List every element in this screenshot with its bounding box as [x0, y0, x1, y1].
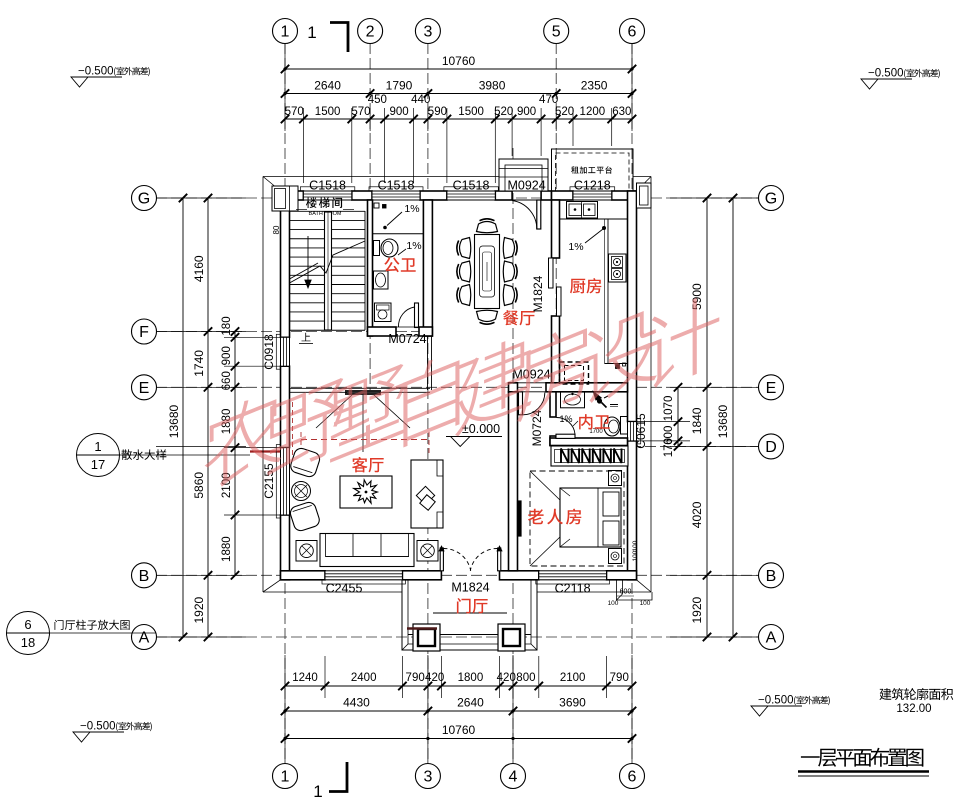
svg-text:G: G [765, 191, 777, 208]
window C0918 [281, 337, 290, 366]
axis bubble G right [759, 186, 784, 211]
wall bottom: pier at axis6 corner [607, 571, 637, 580]
axis grid line E (horizontal) [156, 386, 759, 388]
left extension lines [224, 336, 282, 338]
axis bubble E right [759, 375, 784, 400]
svg-text:1: 1 [313, 782, 322, 801]
svg-text:1500: 1500 [315, 106, 341, 118]
svg-text:1%: 1% [404, 203, 419, 215]
svg-text:6: 6 [628, 769, 637, 786]
living TV projection lines [316, 395, 352, 428]
red marker san-shui [250, 450, 282, 452]
svg-text:1800: 1800 [458, 672, 484, 684]
svg-text:1500: 1500 [458, 106, 484, 118]
svg-text:800: 800 [516, 672, 535, 684]
living TV on wall [345, 390, 381, 395]
window C1518 #3 [447, 191, 495, 200]
svg-text:3690: 3690 [559, 696, 586, 710]
dining chairs right column [503, 238, 517, 259]
living end table right [417, 541, 438, 562]
svg-text:13680: 13680 [167, 404, 181, 438]
svg-text:−0.500: −0.500 [868, 68, 904, 80]
wall interior: E wall kitchen/bath [546, 383, 628, 392]
annex label [571, 166, 612, 174]
axis bubble 1 top [273, 19, 298, 44]
stair break line [290, 241, 366, 283]
kitchen stove [609, 254, 627, 282]
window C1518 #2 [372, 191, 420, 200]
axis bubble F left [132, 319, 157, 344]
svg-text:1: 1 [281, 24, 290, 41]
svg-text:520: 520 [555, 106, 574, 118]
room label 公卫 [384, 257, 415, 272]
svg-text:80: 80 [272, 225, 281, 234]
detail bubble 6/18 porch column [7, 612, 50, 655]
axis grid line F (horizontal) [156, 331, 430, 333]
annex prep platform outline [552, 149, 634, 191]
svg-text:5900: 5900 [690, 283, 704, 310]
svg-text:A: A [766, 630, 777, 647]
room label 餐厅 [503, 310, 535, 325]
svg-text:900: 900 [517, 106, 536, 118]
dimension column right inner (1070/600/170) [677, 387, 679, 446]
wall interior: bath bottom right of door M0724 [419, 327, 432, 336]
svg-text:1880: 1880 [221, 536, 233, 562]
axis grid line 2 (vertical) [369, 43, 371, 392]
svg-text:C1518: C1518 [378, 179, 415, 193]
svg-text:M1824: M1824 [451, 581, 489, 595]
detail bubble 1/17 san-shui [77, 434, 120, 477]
door M0724 bath2: swing arc [557, 417, 576, 434]
svg-text:5860: 5860 [192, 472, 206, 499]
window C2155 [281, 448, 290, 515]
wall interior: E wall stub at axis4 [509, 383, 518, 392]
svg-text:180: 180 [221, 316, 233, 335]
svg-text:590: 590 [428, 106, 447, 118]
stair up label 上 [302, 333, 311, 342]
svg-text:900: 900 [221, 346, 233, 365]
axis bubble B right [759, 563, 784, 588]
svg-text:2100: 2100 [560, 672, 586, 684]
axis bubble 2 top [358, 19, 383, 44]
svg-text:D: D [765, 439, 777, 456]
svg-text:2640: 2640 [457, 696, 484, 710]
door M0724 bath2: leaf open [556, 434, 575, 438]
axis bubble A left [132, 625, 157, 650]
svg-text:100: 100 [632, 550, 639, 561]
eave outline [263, 176, 499, 178]
svg-text:2400: 2400 [351, 672, 377, 684]
stair treads [290, 210, 366, 212]
svg-text:B: B [139, 568, 150, 585]
svg-text:3: 3 [423, 24, 432, 41]
living decor cabinet [411, 460, 443, 528]
room label 客厅 [352, 457, 384, 473]
window C1218 [573, 191, 612, 200]
dimension row bottom inner (1240/2400/790/420/1800/420/800/2100/790) [285, 685, 632, 687]
window C2118 [539, 571, 607, 580]
wall top kitchen: pier left of C1218 [552, 191, 574, 200]
svg-text:10760: 10760 [442, 54, 476, 68]
svg-text:1790: 1790 [386, 79, 413, 93]
svg-text:630: 630 [612, 106, 631, 118]
bedroom rug dashed [530, 471, 624, 566]
living round side table [292, 482, 311, 501]
step block bottom-right corner [617, 580, 653, 600]
svg-text:1840: 1840 [690, 407, 704, 434]
svg-text:1920: 1920 [690, 596, 704, 623]
svg-text:1200: 1200 [580, 106, 606, 118]
svg-text:2640: 2640 [314, 79, 341, 93]
wall interior: bath bottom left of door M0724 [368, 327, 397, 336]
bath1 toilet [374, 241, 380, 256]
svg-text:C2118: C2118 [555, 582, 591, 596]
axis bubble 6 top [620, 19, 645, 44]
wall bottom: pier at axis3 [402, 571, 441, 580]
svg-text:1740: 1740 [192, 350, 206, 377]
wall interior: bath2 bottom [550, 438, 628, 446]
room label 老人房 [528, 509, 581, 525]
axis grid line 5 (vertical) [555, 43, 557, 392]
svg-text:440: 440 [411, 94, 430, 106]
kitchen fridge dashed [560, 362, 589, 384]
svg-text:E: E [139, 380, 150, 397]
svg-text:6: 6 [24, 617, 31, 632]
porch dark step mark [407, 627, 437, 630]
axis grid line G (horizontal) [156, 197, 759, 199]
svg-text:M0924: M0924 [507, 179, 545, 193]
svg-text:4430: 4430 [343, 696, 370, 710]
wall top: segment axis1 corner [281, 191, 304, 200]
svg-text:10760: 10760 [442, 723, 476, 737]
bedroom nightstand bottom [609, 549, 622, 564]
dining table [475, 235, 500, 309]
flue top-left corner [272, 186, 298, 211]
dining chair top [477, 219, 498, 233]
svg-text:790: 790 [406, 672, 425, 684]
room label 内卫 [579, 414, 610, 429]
window C1518 #1 [303, 191, 351, 200]
axis bubble B left [132, 563, 157, 588]
svg-text:−0.500: −0.500 [80, 721, 116, 733]
living coffee table [340, 476, 392, 508]
bath2 shower [594, 392, 602, 400]
svg-text:C2155: C2155 [262, 463, 276, 499]
axis grid line B (horizontal) [156, 574, 759, 576]
red dashed ceiling outline living room [301, 439, 429, 441]
bath2 sink [561, 392, 585, 408]
door M0924 top entry: leaf [537, 200, 541, 229]
svg-text:100: 100 [632, 540, 639, 551]
svg-text:2: 2 [366, 24, 375, 41]
wall right: G to C0615 [628, 191, 637, 422]
wall interior: axis4 living/bedroom [509, 392, 518, 571]
axis grid line A (horizontal) [156, 636, 759, 638]
axis bubble 4 bottom [501, 764, 526, 789]
watermark 农野自建房设计 [205, 289, 720, 494]
svg-text:5: 5 [552, 24, 561, 41]
porch corner diagonals [402, 644, 408, 650]
axis grid line 4 (vertical) [512, 148, 514, 763]
svg-text:M1824: M1824 [531, 275, 545, 312]
svg-text:1: 1 [94, 439, 101, 454]
wall left: below C2155 to corner [281, 515, 290, 580]
flue top-right corner [637, 183, 652, 208]
svg-text:900: 900 [390, 106, 409, 118]
door M0724 bath1: leaf and arc [415, 303, 419, 328]
bedroom nightstand top [609, 471, 622, 486]
dimension row top inner (570/1500/570/450/900/440/590/1500/520/900/470/520/1200/630) [285, 118, 632, 120]
svg-text:450: 450 [368, 94, 387, 106]
svg-text:3: 3 [423, 769, 432, 786]
bath1 sink [374, 271, 389, 289]
wall top: pier between C1518 windows [352, 191, 372, 200]
door M1824 main entry: dashed swing arcs [443, 548, 470, 570]
porch outline [402, 580, 537, 650]
svg-text:1%: 1% [406, 240, 421, 252]
wall interior: bath2 left above door [550, 392, 556, 417]
svg-text:C1218: C1218 [574, 179, 611, 193]
axis bubble 3 bottom [415, 764, 440, 789]
wall interior: axis5 below M1824 [552, 316, 560, 383]
bedroom TV on wall [518, 501, 522, 536]
wall top kitchen: pier right of C1218 [612, 191, 637, 200]
dimension column right overall 13680 [732, 198, 734, 637]
bath2 towel bar [610, 404, 618, 406]
axis bubble E left [132, 375, 157, 400]
axis grid line 3 (vertical) [427, 43, 429, 763]
wall interior: axis3 bath right [423, 200, 432, 336]
window C0615 [628, 422, 637, 441]
wall interior: axis5 dining/kitchen above M1824 [552, 200, 560, 258]
eave corner diagonals [263, 177, 281, 192]
right extension lines [636, 421, 690, 423]
svg-text:600: 600 [620, 589, 632, 596]
door M1824 kitchen sliding door [549, 258, 554, 288]
porch column left [413, 624, 440, 651]
window C2455 [325, 571, 402, 580]
bath1 washing machine [375, 303, 392, 322]
svg-text:A: A [139, 630, 150, 647]
wall left: pier between C0918 and C2155 [281, 366, 290, 447]
svg-text:1920: 1920 [192, 596, 206, 623]
dimension column left middle (4160/1740/5860/1920) [207, 198, 209, 637]
door M0924 vestibule: swing arc [523, 393, 545, 415]
window sills outside [300, 187, 354, 191]
svg-text:790: 790 [610, 672, 629, 684]
svg-text:1: 1 [281, 769, 290, 786]
living armchair lower [289, 501, 321, 533]
bath2 accessories [616, 365, 620, 369]
door M0924 vestibule at E wall: leaf [519, 392, 523, 415]
svg-text:−0.500: −0.500 [758, 695, 794, 707]
living end table left [296, 541, 317, 562]
svg-text:3980: 3980 [479, 79, 506, 93]
bottom extension lines [324, 656, 326, 698]
axis bubble G left [132, 186, 157, 211]
dining chair bottom [477, 310, 498, 324]
svg-text:1%: 1% [568, 241, 583, 253]
svg-text:2350: 2350 [581, 79, 608, 93]
dining chairs left column [457, 238, 471, 259]
living plant on table [353, 480, 377, 503]
wall top: pier right of door M0924 [541, 191, 551, 200]
kitchen counter [560, 218, 628, 220]
svg-text:M0724: M0724 [388, 332, 426, 346]
dimension column right middle (5900/1840/4020/1920) [706, 198, 708, 637]
svg-text:C0918: C0918 [262, 334, 276, 370]
axis grid line D (horizontal) [600, 445, 759, 447]
living diamond decor [416, 486, 434, 504]
axis bubble 1 bottom [273, 764, 298, 789]
porch step line [433, 612, 507, 614]
svg-text:C2455: C2455 [326, 582, 363, 596]
stair label 楼梯间 [306, 197, 342, 208]
bath1 shower partition [373, 233, 424, 235]
svg-text:520: 520 [494, 106, 513, 118]
beam between dining and living [290, 387, 431, 389]
dimension row top middle (2640/1790/3980/2350) [285, 93, 632, 95]
axis bubble D right [759, 434, 784, 459]
wall left: G to C0918 [281, 191, 290, 337]
svg-text:132.00: 132.00 [896, 703, 931, 715]
door M0924 top entry: threshold [512, 190, 541, 192]
svg-text:570: 570 [285, 106, 304, 118]
svg-text:4020: 4020 [690, 501, 704, 528]
dimension row bottom overall 10760 [285, 738, 632, 740]
living armchair upper [289, 447, 321, 479]
axis grid line 1 (vertical) [284, 43, 286, 763]
bath1 floor drain and slope arrow 1% [383, 226, 387, 230]
axis bubble 5 top [544, 19, 569, 44]
svg-text:100: 100 [608, 600, 619, 607]
svg-text:18: 18 [21, 635, 35, 650]
top extension lines [302, 108, 304, 183]
wall bottom: corner to C2455 [281, 571, 326, 580]
svg-text:−0.500: −0.500 [78, 66, 114, 78]
wall top: pier at axis3 [420, 191, 447, 200]
svg-text:±0.000: ±0.000 [462, 422, 500, 436]
svg-text:100: 100 [640, 600, 651, 607]
svg-text:E: E [766, 380, 777, 397]
svg-text:F: F [139, 324, 149, 341]
dimension column left overall 13680 [182, 198, 184, 637]
svg-text:4160: 4160 [192, 255, 206, 282]
wall right: below C0615 to corner [628, 441, 637, 580]
dimension row bottom middle (4430/2640/3690) [285, 710, 632, 712]
svg-text:G: G [138, 191, 150, 208]
wardrobe hangers zigzag [561, 449, 622, 464]
bedroom bed [560, 488, 621, 547]
kitchen sink double basin [567, 202, 598, 219]
wall bottom: pier at axis4 [500, 571, 539, 580]
svg-text:470: 470 [539, 94, 558, 106]
svg-text:1: 1 [307, 23, 316, 42]
dimension row top overall 10760 [285, 68, 632, 70]
svg-text:1070: 1070 [663, 396, 675, 422]
axis bubble A right [759, 625, 784, 650]
svg-text:17: 17 [91, 457, 105, 472]
svg-text:1700: 1700 [589, 429, 603, 435]
svg-text:13680: 13680 [716, 404, 730, 438]
axis bubble 3 top [415, 19, 440, 44]
svg-text:570: 570 [351, 106, 370, 118]
door M1824 main entry: double leaves [440, 548, 443, 571]
porch column right [498, 624, 525, 651]
svg-text:4: 4 [509, 769, 518, 786]
door M0924 top entry: swing arc [512, 201, 537, 230]
dimension column left inner (180/900/660/1880/2100/1880) [234, 332, 236, 576]
entry landing outside M0924 [499, 159, 548, 191]
svg-text:1240: 1240 [292, 672, 318, 684]
title 建筑轮廓面积 [879, 688, 953, 700]
axis grid line 6 (vertical) [631, 43, 633, 763]
svg-text:6: 6 [628, 24, 637, 41]
wall top: pier left of door M0924 [495, 191, 512, 200]
axis bubble 6 bottom [620, 764, 645, 789]
svg-text:C0615: C0615 [634, 413, 648, 449]
wall stub axis3 dining edge [427, 336, 429, 390]
wall interior: bath2 left stub [550, 436, 556, 446]
room label 门厅 [457, 598, 488, 613]
svg-text:1%: 1% [559, 414, 572, 424]
stair center rail [325, 212, 332, 330]
stair direction arrow [307, 236, 309, 280]
wardrobe outline [551, 446, 628, 466]
living sofa [320, 534, 414, 567]
svg-text:C1518: C1518 [309, 179, 346, 193]
bath2 toilet [621, 417, 628, 435]
bath1 small fittings [374, 203, 379, 208]
main title 一层平面布置图 [801, 748, 924, 767]
svg-text:B: B [766, 568, 777, 585]
svg-text:C1518: C1518 [453, 179, 490, 193]
room label 厨房 [570, 278, 601, 293]
wall interior: axis2 stair/bath divider [368, 200, 373, 336]
